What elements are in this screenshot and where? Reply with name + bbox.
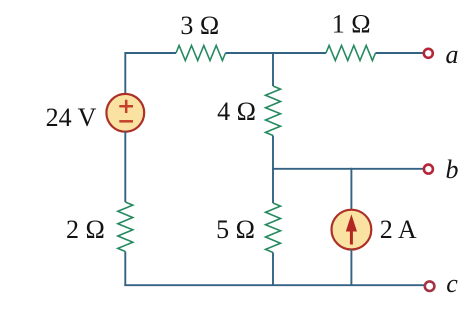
wire: left vertical from 2-ohm down to bottom-left corner (124, 252, 126, 286)
svg-text:5 Ω: 5 Ω (216, 215, 255, 244)
svg-text:c: c (446, 269, 458, 298)
wire: top middle segment between 3-ohm and top of 4-ohm branch (226, 52, 327, 54)
wire: middle vertical from 4-ohm down through node b row to 5-ohm (272, 136, 274, 204)
wire: bottom horizontal to terminal c (124, 284, 424, 286)
svg-text:2 Ω: 2 Ω (66, 215, 105, 244)
svg-text:3 Ω: 3 Ω (180, 11, 219, 40)
svg-text:2 A: 2 A (380, 215, 417, 244)
resistor R1 3-ohm zigzag (176, 46, 226, 61)
current source I1 2A circle (332, 210, 372, 250)
wire: middle vertical from top node down to 4-ohm (272, 52, 274, 86)
resistor R4 5-ohm zigzag (vertical) (266, 203, 281, 253)
wire: from 1-ohm to terminal a (376, 52, 424, 54)
wire: node b horizontal from middle vertical to terminal b (272, 168, 424, 170)
wire: middle vertical from 5-ohm down to bottom wire (272, 253, 274, 286)
resistor R2 1-ohm zigzag (326, 46, 376, 61)
voltage source minus sign (119, 120, 133, 123)
terminal a (open circle) (424, 49, 433, 58)
svg-text:24 V: 24 V (46, 103, 97, 132)
svg-text:1 Ω: 1 Ω (332, 10, 371, 39)
wire: current source branch lower segment (350, 250, 352, 286)
wire: left vertical from voltage source bottom to 2-ohm (124, 132, 126, 203)
resistor R5 2-ohm zigzag (vertical) (118, 202, 133, 252)
svg-text:4 Ω: 4 Ω (217, 97, 256, 126)
current source arrow head (346, 214, 357, 231)
voltage source V1 24V circle (106, 94, 144, 132)
terminal c (open circle) (425, 281, 435, 291)
resistor R3 4-ohm zigzag (vertical) (266, 86, 281, 136)
current source arrow shaft (350, 229, 353, 245)
svg-text:a: a (446, 40, 459, 69)
wire: current source branch upper segment (350, 168, 352, 210)
svg-text:b: b (446, 155, 459, 184)
wire: top-left corner from voltage source top to 3-ohm resistor (125, 53, 176, 94)
voltage source plus sign (119, 100, 133, 113)
terminal b (open circle) (424, 165, 433, 174)
